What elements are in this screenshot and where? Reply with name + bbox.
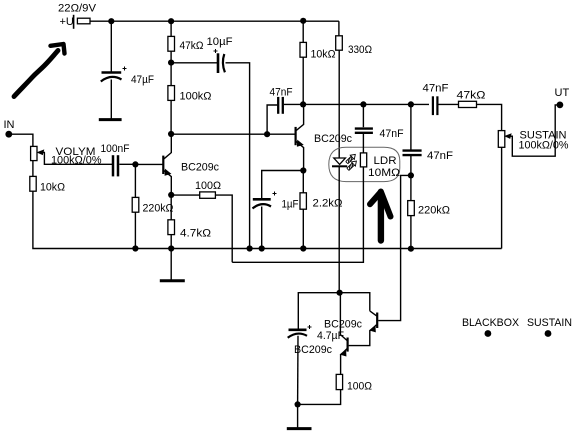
svg-text:100kΩ/0%: 100kΩ/0%	[519, 140, 569, 152]
wire wiper to 100nF	[44, 152, 112, 164]
resistor 100k (vertical)	[168, 86, 175, 101]
svg-text:100Ω: 100Ω	[347, 381, 372, 393]
svg-text:100nF: 100nF	[101, 143, 130, 155]
wire Q2 emitter to 2.2k	[302, 171, 304, 193]
wire rail to 47k	[170, 21, 172, 36]
wire Q2 base	[267, 133, 295, 135]
svg-text:BC209c: BC209c	[294, 344, 332, 356]
terminal UT	[557, 102, 564, 109]
wire mid rail (Q2 collector to output)	[303, 103, 429, 105]
node rail at 47k	[168, 18, 174, 24]
resistor 100R (horizontal)	[200, 192, 216, 198]
wire 100R bottom to ground wire	[298, 390, 341, 405]
wire 100k down to Q1 collector node	[170, 100, 172, 134]
wire 4.7uF to bottom node	[297, 336, 299, 405]
node Q2 collector mid rail	[300, 101, 306, 107]
wire 100R right then down	[215, 195, 232, 262]
resistor 22R (series supply)	[77, 18, 90, 24]
node mid rail at 47nF#3	[360, 101, 366, 107]
svg-text:BC209c: BC209c	[324, 319, 362, 331]
node sustain tap	[408, 172, 414, 178]
wire mid rail to 47nF#4	[410, 104, 412, 150]
transistor Q4 BC209c (mirrored)	[340, 293, 347, 375]
wire node to 220k right	[410, 175, 412, 200]
wire rail down to 47uF	[110, 21, 112, 71]
capacitor C 47uF electrolytic	[101, 67, 127, 82]
svg-text:10µF: 10µF	[207, 36, 233, 48]
node Q2 emitter	[300, 167, 306, 173]
node supply junction 47uF	[108, 18, 114, 24]
svg-text:47nF: 47nF	[380, 128, 404, 140]
capacitor C 10uF electrolytic	[214, 49, 225, 73]
capacitor C 47nF #4	[403, 151, 422, 156]
svg-text:100kΩ/0%: 100kΩ/0%	[51, 155, 102, 167]
potentiometer VOLYM wiper arrow	[38, 150, 45, 154]
wire bus to ground G2	[170, 249, 172, 280]
svg-text:10kΩ: 10kΩ	[40, 182, 65, 194]
wire 10k Q2 to mid rail	[302, 57, 304, 104]
svg-text:47µF: 47µF	[131, 74, 154, 86]
resistor 2.2k (vertical)	[300, 193, 306, 209]
wire Q3 base from sustain tap	[378, 175, 411, 320]
potentiometer VOLYM body	[31, 146, 37, 160]
node Q1 collector	[168, 131, 174, 137]
wire 47nF output to 47k output	[439, 103, 459, 105]
capacitor C 100nF	[113, 155, 118, 176]
resistor 47k output (horizontal)	[459, 101, 477, 107]
resistor 220k bias (vertical)	[132, 197, 139, 212]
wire mid rail to 47nF#3	[362, 104, 364, 127]
svg-text:22Ω/9V: 22Ω/9V	[58, 3, 97, 15]
wire rail corner down to 330R	[338, 21, 340, 36]
wire emitter2 node left to 1uF	[262, 171, 304, 199]
wire 220k to bus	[134, 212, 136, 248]
svg-text:LDR: LDR	[374, 155, 397, 167]
wire 22R to rail	[90, 20, 111, 22]
node 2.2k-bus	[300, 245, 306, 251]
wire 10uF right then down to bus	[226, 63, 250, 249]
svg-text:BC209c: BC209c	[314, 133, 352, 145]
resistor 47k (vertical)	[168, 36, 175, 51]
resistor 100R bottom (vertical)	[336, 374, 342, 389]
svg-text:1µF: 1µF	[282, 199, 299, 211]
wire 100nF to base node	[119, 163, 135, 165]
node main ground	[168, 245, 174, 251]
node mid rail at 47nF#4	[408, 101, 414, 107]
node 10uF-bus	[247, 245, 253, 251]
node rail at 10k	[300, 18, 306, 24]
svg-text:220kΩ: 220kΩ	[143, 203, 174, 215]
terminal IN	[5, 131, 12, 138]
annotation arrow A2 (hand drawn, up)	[378, 196, 384, 241]
node lower circuit top	[337, 290, 343, 296]
svg-text:330Ω: 330Ω	[348, 44, 372, 56]
capacitor C 47nF coupling	[278, 97, 283, 114]
wire LDR down then left to 100R branch	[232, 167, 363, 262]
potentiometer SUSTAIN body	[498, 131, 505, 148]
LDR resistor body	[360, 153, 366, 167]
svg-text:BC209c: BC209c	[181, 162, 219, 174]
node Q1 base	[132, 161, 138, 167]
node divider junction	[168, 60, 174, 66]
wire 47uF to ground	[110, 80, 112, 119]
wire emitter to 100R	[171, 194, 200, 196]
wire 47nF corner up	[267, 105, 277, 134]
LED light arrows	[345, 152, 359, 171]
ground G2	[160, 279, 185, 282]
wire 330R down to LED (crosses mid rail)	[338, 50, 340, 157]
battery terminal bar +U	[73, 15, 75, 29]
capacitor C 4.7uF electrolytic	[288, 325, 312, 338]
LDR bubble outline	[329, 147, 400, 181]
wire sustain wiper to UT	[511, 105, 559, 156]
svg-text:+U: +U	[60, 16, 74, 28]
svg-text:220kΩ: 220kΩ	[418, 205, 450, 217]
wire rail to 10k Q2	[302, 21, 304, 42]
transistor Q1 BC209c	[135, 134, 171, 195]
node bottom ground	[295, 401, 301, 407]
svg-text:SUSTAIN: SUSTAIN	[527, 317, 572, 329]
wire 1uF to bus	[261, 207, 263, 249]
svg-text:47kΩ: 47kΩ	[457, 90, 486, 102]
LED in bubble	[332, 158, 347, 166]
resistor 10k Q2 collector (vertical)	[300, 42, 306, 57]
resistor 4.7k (vertical)	[168, 220, 175, 235]
svg-text:10kΩ: 10kΩ	[311, 49, 336, 61]
svg-text:100kΩ: 100kΩ	[180, 91, 212, 103]
wire 47k to 100k	[170, 51, 172, 85]
svg-text:47nF: 47nF	[270, 87, 293, 99]
node Q1 emitter	[168, 192, 174, 198]
node 220k-bus	[132, 245, 138, 251]
svg-text:2.2kΩ: 2.2kΩ	[313, 198, 343, 210]
wire node to 10uF	[171, 62, 217, 64]
node 1uF-bus	[259, 245, 265, 251]
terminal BLACKBOX	[485, 330, 492, 337]
wire pot bottom to 10k	[32, 160, 34, 176]
terminal SUSTAIN	[545, 330, 552, 337]
wire 47nF#4 to node	[410, 156, 412, 176]
svg-text:47nF: 47nF	[423, 83, 449, 95]
capacitor C 47nF output	[433, 96, 438, 115]
wire to ground G3	[297, 404, 299, 427]
capacitor C 47nF #3 (across LDR top)	[355, 129, 373, 133]
wire collector node to 47nF corner	[171, 133, 267, 135]
svg-text:10MΩ: 10MΩ	[368, 167, 400, 179]
annotation arrow A1 (hand drawn)	[14, 51, 58, 97]
wire base node down to 220k	[134, 164, 136, 197]
wire 47nF to mid rail	[284, 103, 303, 105]
wire LED cathode down to lower node	[338, 166, 340, 292]
svg-text:BLACKBOX: BLACKBOX	[462, 317, 520, 329]
wire 47nF#3 to LDR	[362, 134, 364, 153]
resistor 220k right (vertical)	[408, 201, 415, 216]
ground G3	[287, 427, 312, 430]
svg-text:47kΩ: 47kΩ	[180, 40, 204, 52]
wire 4.7k to bus	[170, 235, 172, 249]
node 47nF tap	[264, 131, 270, 137]
transistor Q3 BC209c (mirrored)	[349, 311, 378, 346]
svg-text:100Ω: 100Ω	[195, 180, 221, 192]
wire emitter node to 4.7k	[170, 195, 172, 220]
resistor 330R (vertical)	[336, 36, 343, 50]
wire top rail	[111, 20, 339, 22]
node 220k-bus right	[408, 246, 414, 252]
wire 2.2k to bus	[302, 209, 304, 248]
wire 220k right to bus	[410, 216, 412, 249]
svg-text:IN: IN	[4, 119, 15, 131]
capacitor C 1uF electrolytic	[253, 192, 277, 209]
wire lower top rail	[298, 293, 370, 329]
wire 10k to bus	[33, 191, 502, 248]
resistor 10k input (vertical)	[30, 176, 36, 191]
svg-text:4.7kΩ: 4.7kΩ	[180, 228, 211, 240]
wire 47k output to sustain pot	[477, 104, 502, 130]
ground G1	[99, 118, 122, 121]
potentiometer SUSTAIN wiper arrow	[506, 134, 512, 138]
svg-text:47nF: 47nF	[427, 150, 453, 162]
wire IN to pot	[9, 134, 33, 147]
wire sustain pot bottom to bus	[501, 147, 503, 248]
transistor Q2 BC209c	[296, 106, 304, 171]
svg-text:UT: UT	[555, 87, 570, 99]
